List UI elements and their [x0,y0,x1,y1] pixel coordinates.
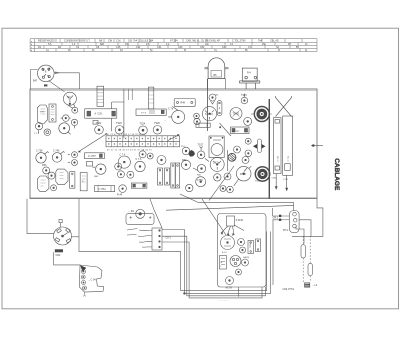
trimmer R41 [127,171,134,178]
svg-text:GR.1: GR.1 [273,217,279,220]
svg-text:R709: R709 [240,173,246,176]
IF can 1 base C1737 [85,109,117,118]
connector CA1 [152,228,162,250]
svg-text:S·7·8: S·7·8 [141,113,147,115]
rectifier can GR1 [289,211,299,233]
svg-text:→ B1: → B1 [128,210,135,213]
wire arrow to strip right [168,135,179,141]
trimmer TSb [72,160,78,166]
trimmer R58 [234,146,241,153]
gang capacitor C734 [274,118,282,174]
gang capacitor C776 [283,116,293,175]
trimmer small low [51,185,57,191]
inner rect of B5 [211,71,222,78]
svg-text:C71: C71 [248,46,253,49]
svg-text:PP: PP [288,43,292,46]
long wire run B [162,236,266,296]
wire diag into panel [202,199,226,235]
svg-text:CAD. MIL BL. DL EM.CH.BL.AP: CAD. MIL BL. DL EM.CH.BL.AP [186,40,220,43]
fuse capsule 1 [301,245,305,258]
trimmer e [117,171,124,178]
tuning unit S2 [63,92,76,105]
capacitor C178 [196,123,210,127]
pot R709 [236,166,251,181]
trimmer d [115,163,122,170]
shield pentagon 2 [56,169,68,185]
switch stem [60,223,62,228]
resistor C1761 [95,186,115,192]
svg-text:C 7a: C 7a [168,108,174,111]
wire chassis to CA1 level [79,199,151,252]
trimmer R44 [119,185,127,193]
table column dividers row1 [56,39,302,43]
trimmer i [224,173,231,180]
trimmer p2 [240,247,246,253]
long wire run C [162,242,262,298]
output transformer box [209,136,224,158]
sub panel outline [218,214,267,288]
svg-text:B·C2: B·C2 [222,252,227,254]
wire from switch right [72,236,80,238]
IF can 2 base [136,109,166,115]
svg-text:TS17: TS17 [198,144,204,147]
small trimmer a [194,113,200,119]
svg-text:R53: R53 [42,164,47,167]
terminal strip dots [108,138,177,145]
svg-text:B47: B47 [33,80,38,83]
svg-text:TS15: TS15 [241,94,247,97]
trimmer R63 [242,157,249,164]
wire B47 to S2 [49,81,65,92]
wire short arrows [193,159,247,172]
antenna wire exit [311,145,323,147]
cap C746 [135,161,145,171]
trimmer R60 [182,147,190,155]
table column dividers row2 [62,42,298,45]
svg-text:P.1149: P.1149 [236,219,244,222]
transistor cluster B CA [230,256,241,267]
electrolytic pair 4 [175,163,179,188]
wire diag steep [209,166,234,201]
svg-text:C 740: C 740 [53,150,60,153]
IF can 2 bar [149,87,154,109]
trimmer TS24 [139,126,148,135]
svg-text:C04 377A: C04 377A [283,287,295,291]
IF can 1 bar [97,86,104,106]
svg-text:CR2: CR2 [56,254,61,257]
grid cap small circle [209,94,216,101]
wire link [111,102,124,109]
svg-text:c: c [31,47,32,49]
trimmer mid [63,115,70,122]
electrolytic block (pentagon) [37,105,47,124]
svg-text:TS4: TS4 [215,95,218,97]
svg-text:M: M [221,262,223,264]
svg-text:65 52 14 18 45 31 23 91 87 48: 65 52 14 18 45 31 23 91 87 48 36 75 [107,150,153,152]
switch base bar [55,249,63,252]
capacitor card [49,104,56,122]
wire diag shallow [180,194,198,202]
svg-text:GM7: GM7 [92,167,97,169]
svg-text:→: → [164,120,166,122]
svg-text:6k8: 6k8 [100,43,105,46]
trimmer R61 [181,160,190,169]
svg-text:DA120: DA120 [243,256,250,259]
svg-text:C 734: C 734 [278,155,280,161]
capacitor block [231,127,250,134]
trimmer TS17 [197,151,205,159]
svg-text:DM120: DM120 [250,242,252,248]
battery symbol [305,283,310,287]
resistor R49 [174,99,195,107]
trimmer ACTN [226,277,234,285]
svg-text:1771: 1771 [40,112,45,114]
dial cord wires [129,89,133,100]
svg-text:C 7·1: C 7·1 [34,133,40,135]
shield partition thick line [268,99,270,199]
svg-text:C.M.: C.M. [116,40,121,43]
electrolytic dark TS72 [255,167,269,181]
wire from chassis to rectifier [198,202,294,210]
svg-text:CABLAGE: CABLAGE [333,158,340,191]
wire sloped long [166,206,294,211]
connector pins [82,270,86,274]
small rect R10 [93,121,98,125]
svg-text:C750: C750 [197,179,203,182]
svg-text:C22: C22 [136,46,141,49]
cap C740 [52,153,62,163]
DIN connector C94 [79,265,104,292]
trimmer TS28 [153,126,162,135]
small rect under C1757 [87,162,93,167]
svg-text:PH.1: PH.1 [283,229,289,232]
svg-text:A 1737: A 1737 [233,130,241,133]
trimmer R53 [43,167,50,174]
capacitor card 2 [70,172,75,189]
svg-text:TS28: TS28 [154,122,160,125]
transistor B can [221,236,235,250]
wire vertical long [123,89,125,138]
svg-text:B5: B5 [214,74,218,77]
capacitor card 3 [80,173,87,191]
chassis bottom inner edge [30,196,317,198]
rotary switch CR2 [54,227,72,245]
svg-text:C 776: C 776 [288,155,290,161]
wires right of GR1 [299,220,311,236]
svg-text:·–·–·–·–: ·–·–·–·– [219,300,229,302]
svg-text:TS26: TS26 [116,122,122,125]
svg-text:150: 150 [125,43,130,46]
wire loop left of B47 [31,70,38,90]
svg-text:L: L [221,266,223,268]
electrolytic TS71 dark [254,107,269,122]
svg-text:CW: CW [108,40,113,43]
wires from S2 to pilot [67,104,75,109]
trimmer p4 [236,269,242,275]
trimmer TS26b [115,126,124,135]
svg-text:S 1739: S 1739 [205,113,213,116]
tube shield centre line [207,79,209,131]
svg-text:TS20: TS20 [96,122,102,125]
volume pot big [59,123,70,134]
svg-text:6f: 6f [184,49,186,52]
svg-text:GM2: GM2 [94,176,99,178]
wire switch to connector [54,252,80,265]
resistor C1757 [85,153,105,159]
trimmer R59b [245,138,251,144]
wire vertical from C1737 [110,118,112,131]
tube socket B1758 [210,157,224,171]
wire diagonal to transformer [220,123,231,136]
vibrator box R4 [240,68,260,89]
crossed wires [276,98,292,117]
trimmer h [214,174,221,181]
trimmer j [186,184,193,191]
tube socket S1739 [202,107,216,121]
fuse capsule 2 [308,263,312,275]
svg-text:2: 2 [219,107,221,110]
long wire run A [162,230,271,294]
trimmer TS26 [244,117,252,125]
svg-text:R·44: R·44 [117,194,123,197]
dark coil blob [189,150,196,157]
cap C744 [118,156,130,168]
GR1 input terminals [279,215,281,217]
svg-text:C 7·6: C 7·6 [136,158,143,161]
svg-text:C52: C52 [200,46,205,49]
cap C739 [96,164,106,174]
electrolytic pair 1 [158,168,163,185]
svg-text:C.TOL.27/IN: C.TOL.27/IN [232,40,246,43]
svg-text:25μ: 25μ [262,43,267,46]
electrolytic DM120 [248,241,254,254]
trimmer R59 [245,150,252,157]
wires chassis to CA1 [150,199,162,228]
panel exit wire [238,287,240,297]
shield pentagon 1 [38,176,49,192]
trimmer mid2 [71,119,77,125]
svg-text:ACTN: ACTN [226,287,233,290]
svg-text:10n: 10n [205,43,210,46]
trimmer TS15 [241,97,248,104]
svg-text:d: d [31,50,32,52]
diagonal wire to strip [78,134,107,153]
cap C738 [36,153,46,163]
svg-text:CBL.AG: CBL.AG [270,40,279,43]
potentiometer small [35,123,42,130]
trimmer R45 [157,156,166,165]
diode pair symbol [258,139,262,153]
tube socket B47 [38,65,55,82]
trimmer p1 [238,239,245,246]
pilot lamp circle [72,107,78,113]
svg-text:C40: C40 [178,46,183,49]
svg-text:R62: R62 [182,159,187,162]
wire chassis to switch [27,199,54,234]
resistor block low [131,183,147,188]
tuning trimmer TS25 [230,108,242,120]
capacitor C1767 [227,216,235,226]
electrolytic pair 3 [171,163,175,188]
svg-text:R49: R49 [181,102,186,105]
main chassis outline [30,89,317,199]
svg-text:C31: C31 [157,46,162,49]
svg-text:C 1757: C 1757 [88,155,96,158]
parts table [30,39,317,52]
trimmer C7a [172,110,185,123]
small trimmer b [194,118,200,124]
table column dividers row3 [44,46,290,49]
tube B5 dome outline [204,58,228,89]
svg-text:→ L2: → L2 [312,284,318,287]
svg-text:TS24: TS24 [140,123,146,126]
svg-text:RESISTANCES: RESISTANCES [38,40,55,43]
trimmer R54 [48,172,55,179]
trimmer R56 [197,164,205,172]
bundle junction dot [184,293,186,295]
svg-text:C 17a: C 17a [213,161,220,164]
pill resistor 2 [217,101,222,116]
electrolytic pair 2 [165,168,170,185]
svg-text:→ C 94: → C 94 [88,279,97,282]
svg-text:R-4: R-4 [247,72,252,75]
svg-text:TS71: TS71 [258,110,264,113]
inline component on B47 wire [55,72,60,74]
svg-text:C 738: C 738 [36,150,43,153]
trimmer l [227,186,234,193]
long wire run D short [151,232,267,291]
trimmer f [139,151,146,158]
connector arrow dark [80,265,86,272]
svg-text:C 1761: C 1761 [98,188,106,191]
svg-text:R56: R56 [197,175,202,177]
terminal strip [106,136,180,147]
svg-text:C 7·4: C 7·4 [120,154,127,157]
table column dividers row4 [56,49,300,52]
B47 ground tab [44,84,47,86]
chassis top inner edge [30,89,317,91]
svg-text:CONDENSATEURS S.T.: CONDENSATEURS S.T. [64,40,91,43]
CA1 prong wires [138,230,152,247]
trimmer g [147,153,153,159]
trimmer TS20 [95,126,104,135]
wire vertical right of B1758 [227,150,229,171]
cap C750 [196,177,206,187]
svg-text:AT 234: AT 234 [170,40,178,43]
svg-text:41 23 67 19 52 84 37 96 28 63: 41 23 67 19 52 84 37 96 28 63 18 [107,134,145,136]
wire right of B47 to chassis [54,73,79,89]
fan wires [221,225,244,235]
svg-text:TS 25: TS 25 [233,113,240,116]
dashed feed lines [303,236,310,283]
speaker unit B1 [126,214,154,225]
svg-text:A C35: A C35 [95,113,103,116]
trimmer TSa [72,152,78,158]
corner wire from chassis [292,199,323,237]
trimmer p3 [242,259,249,266]
svg-text:C776: C776 [283,179,289,181]
trimmer k [220,186,226,192]
electrolytic DA [256,239,261,252]
trimmer small [44,129,51,136]
table header text [38,40,308,53]
svg-text:C60: C60 [222,46,227,49]
gang legs [276,174,287,190]
dark trimmer R57 [228,153,236,161]
resistor card ML [220,256,227,270]
svg-text:CA 1: CA 1 [166,237,172,240]
